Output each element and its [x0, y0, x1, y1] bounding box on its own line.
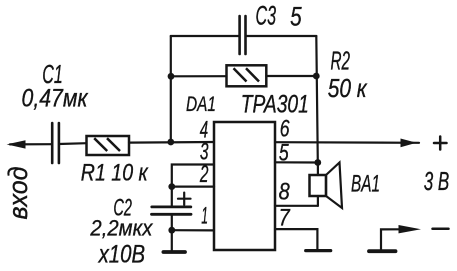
svg-text:2,2мкх: 2,2мкх [89, 216, 153, 241]
svg-text:5: 5 [290, 2, 302, 32]
svg-text:C3: C3 [256, 0, 277, 30]
svg-text:ТРА301: ТРА301 [241, 91, 309, 119]
svg-text:3 В: 3 В [424, 168, 450, 196]
svg-text:х10В: х10В [98, 240, 145, 268]
svg-text:вход: вход [3, 166, 33, 219]
svg-text:R2: R2 [331, 47, 351, 75]
svg-text:DA1: DA1 [186, 92, 216, 116]
svg-text:8: 8 [279, 178, 291, 205]
svg-text:2: 2 [199, 161, 208, 188]
svg-text:BA1: BA1 [351, 170, 380, 197]
svg-text:5: 5 [279, 139, 289, 166]
svg-text:7: 7 [279, 205, 291, 232]
svg-text:1: 1 [201, 203, 208, 230]
svg-text:R1 10 к: R1 10 к [81, 159, 149, 186]
svg-text:50 к: 50 к [328, 73, 368, 103]
svg-text:0,47мк: 0,47мк [22, 84, 89, 112]
